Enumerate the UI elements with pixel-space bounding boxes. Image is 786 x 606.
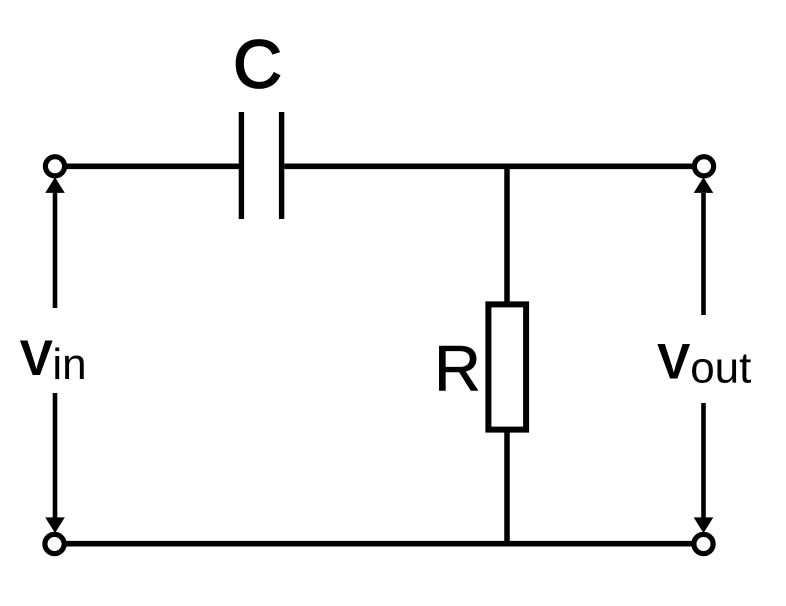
Vout measurement arrow upper head: [694, 177, 714, 193]
node top-right terminal: [694, 157, 713, 176]
Vout measurement arrow upper shaft: [701, 193, 706, 315]
Vin measurement arrow lower shaft: [53, 393, 58, 518]
wire bottom: [66, 541, 692, 547]
Vin measurement arrow lower head: [45, 517, 65, 533]
wire junction vertical from top wire to resistor: [504, 166, 510, 306]
node bottom-left terminal: [45, 534, 64, 553]
Vin measurement arrow upper shaft: [53, 192, 58, 308]
svg-text:V: V: [657, 334, 691, 390]
resistor R body: [488, 304, 526, 429]
Vout measurement arrow lower shaft: [701, 403, 706, 518]
Vin measurement arrow upper head: [45, 177, 65, 193]
svg-text:V: V: [20, 330, 54, 386]
svg-text:C: C: [233, 27, 282, 102]
label Vin: [20, 330, 87, 389]
svg-text:out: out: [690, 343, 751, 392]
wire top-right segment: [284, 164, 692, 170]
node bottom-right terminal: [694, 534, 713, 553]
svg-text:R: R: [434, 332, 481, 405]
wire top-left segment: [66, 164, 239, 170]
capacitor C plates: [241, 112, 281, 219]
Vout measurement arrow lower head: [694, 517, 714, 533]
wire resistor to bottom wire: [504, 428, 510, 544]
svg-text:in: in: [52, 340, 86, 389]
node top-left terminal: [45, 157, 64, 176]
label Vout: [657, 334, 751, 393]
